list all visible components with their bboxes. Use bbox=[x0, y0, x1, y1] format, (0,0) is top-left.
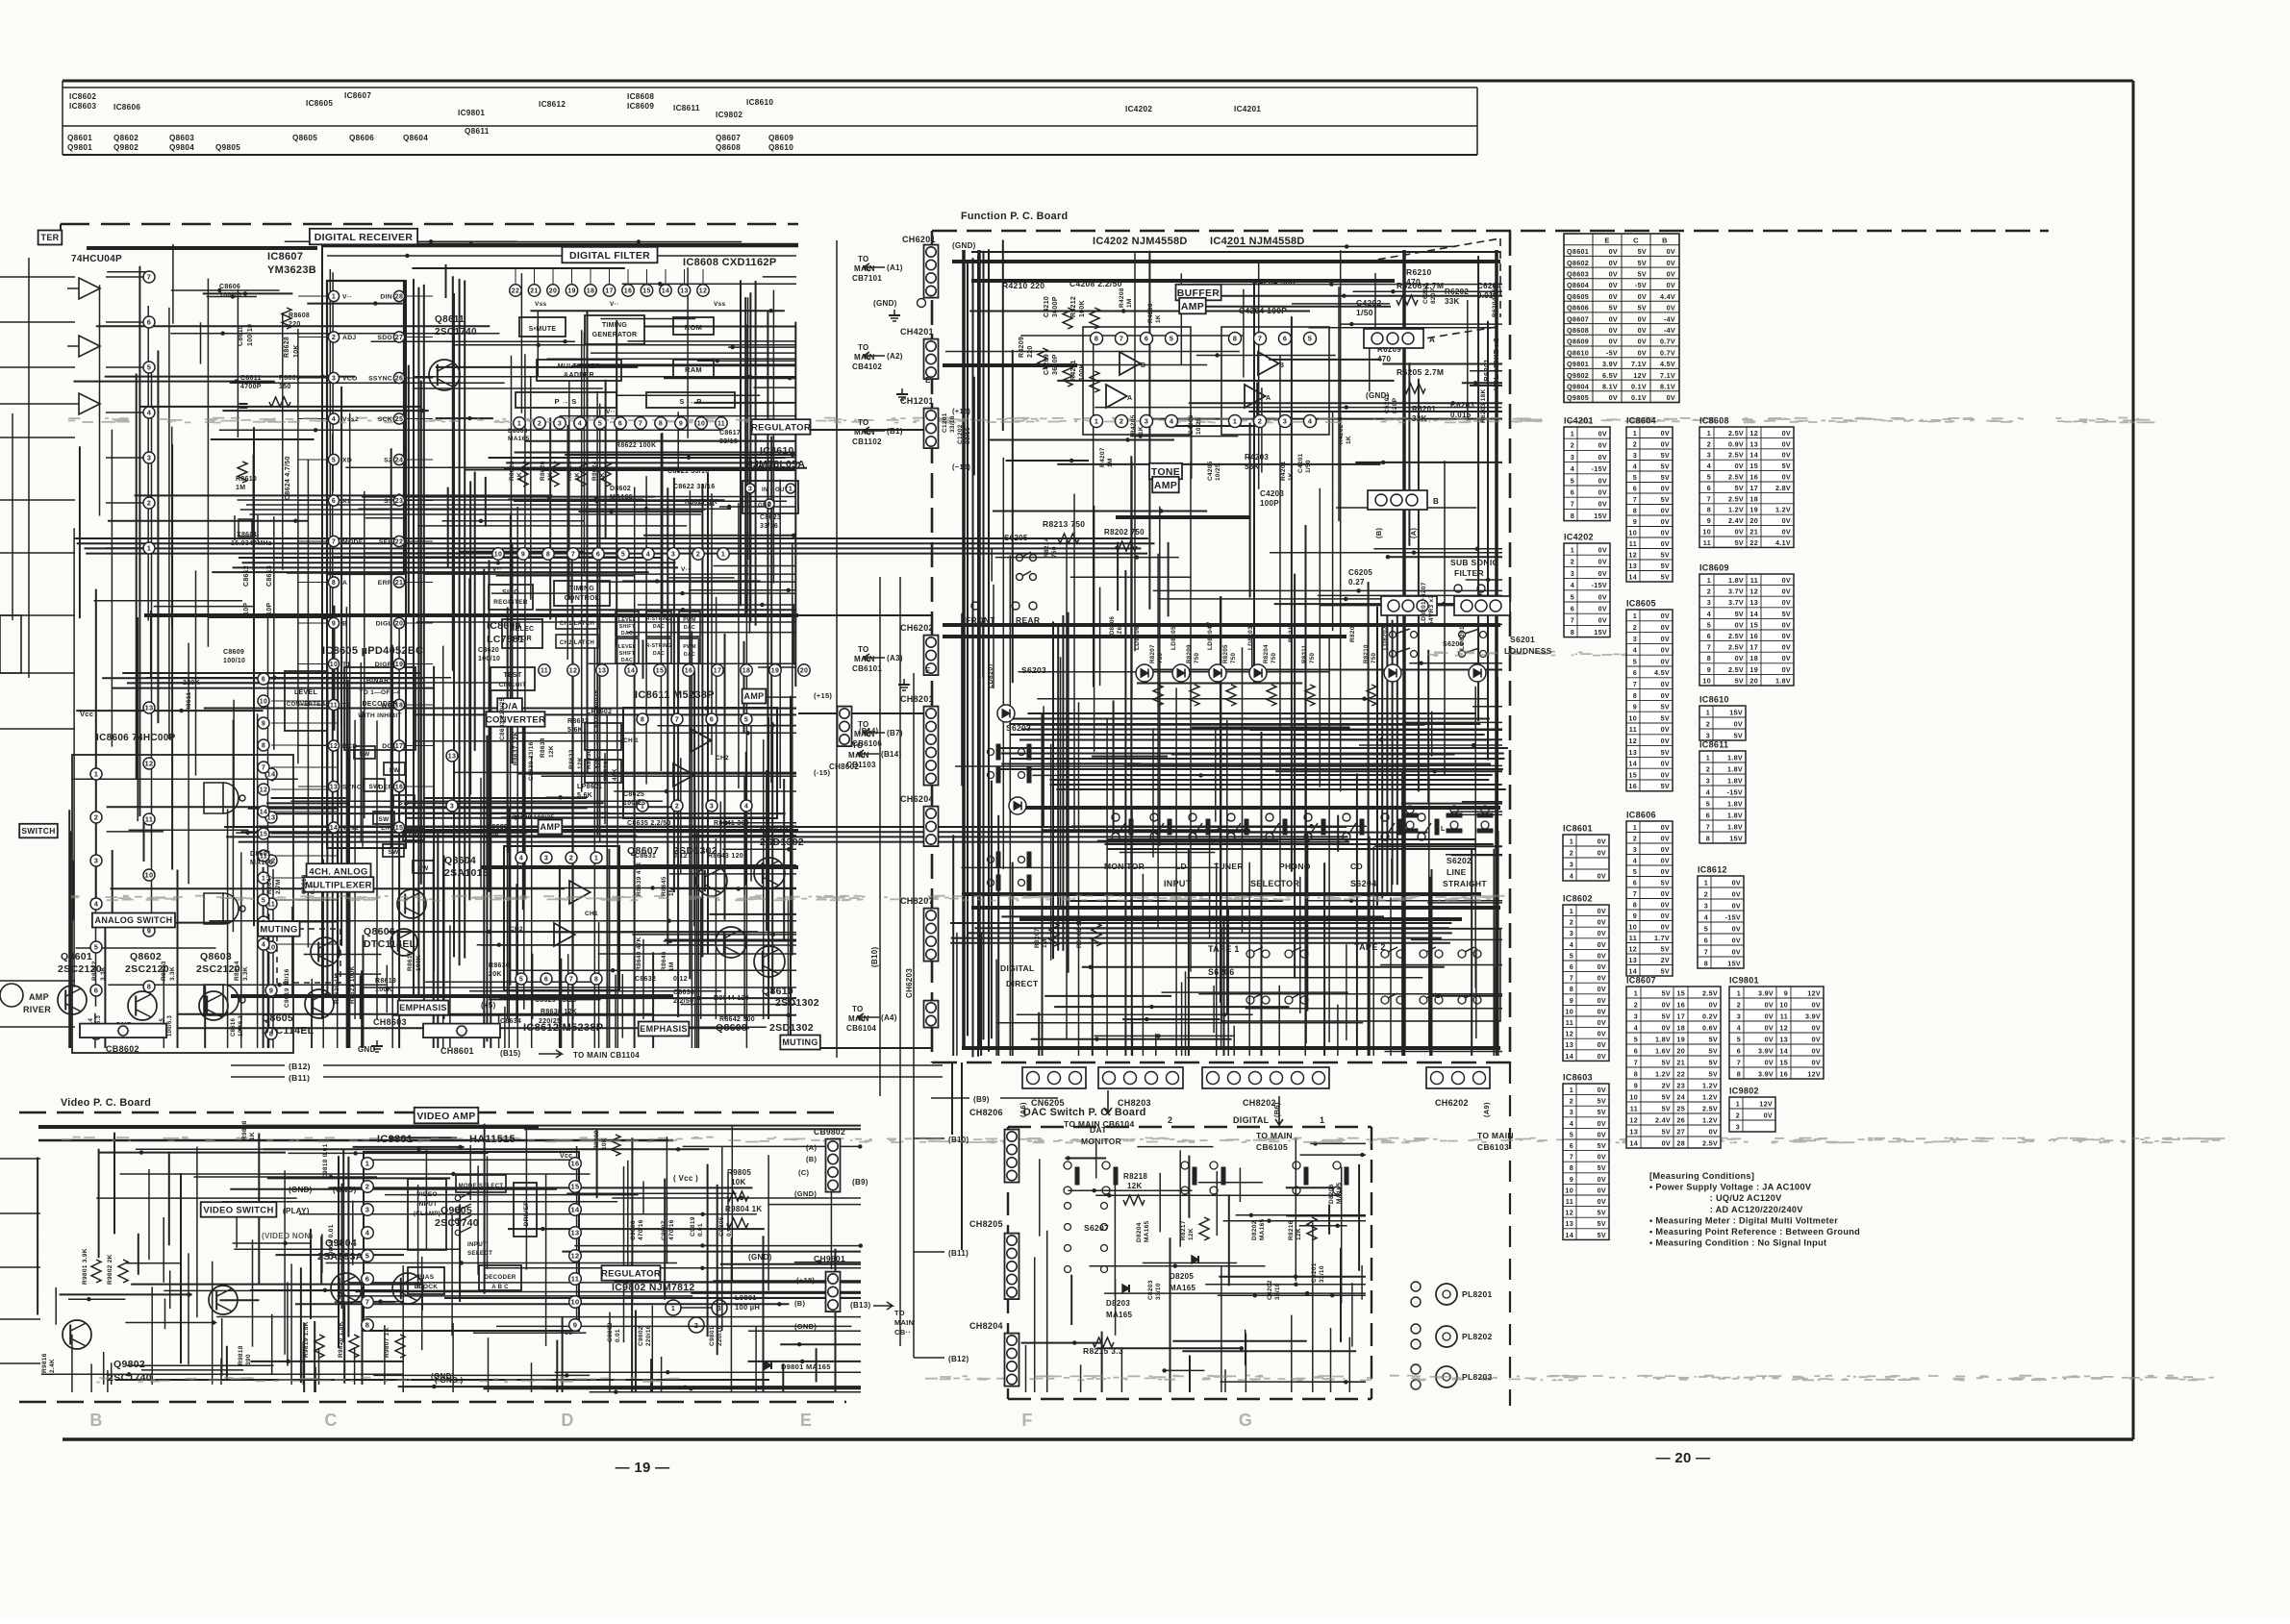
svg-text:CB9802: CB9802 bbox=[814, 1127, 845, 1137]
svg-text:R8627 1K: R8627 1K bbox=[685, 499, 717, 506]
svg-text:0V: 0V bbox=[1661, 901, 1670, 910]
svg-text:Q8605: Q8605 bbox=[262, 1012, 293, 1024]
svg-text:0V: 0V bbox=[1782, 587, 1791, 596]
svg-text:0V: 0V bbox=[1661, 725, 1670, 734]
svg-text:9: 9 bbox=[1707, 665, 1711, 674]
svg-text:6.5V: 6.5V bbox=[1602, 371, 1618, 380]
svg-text:GND: GND bbox=[758, 503, 772, 509]
svg-text:0V: 0V bbox=[1598, 940, 1606, 949]
svg-text:A: A bbox=[342, 580, 347, 587]
svg-text:7: 7 bbox=[639, 421, 642, 428]
svg-text:10: 10 bbox=[1702, 528, 1711, 537]
svg-text:(GND): (GND) bbox=[873, 299, 897, 308]
svg-text:13: 13 bbox=[598, 668, 606, 675]
svg-text:(B11): (B11) bbox=[948, 1249, 969, 1258]
svg-text:A: A bbox=[1266, 395, 1271, 402]
svg-text:220: 220 bbox=[289, 321, 301, 328]
svg-text:7: 7 bbox=[1737, 1058, 1741, 1066]
svg-text:C9803: C9803 bbox=[607, 1322, 614, 1342]
svg-text:SYNC: SYNC bbox=[342, 785, 362, 791]
svg-text:14: 14 bbox=[260, 810, 267, 816]
svg-text:12: 12 bbox=[699, 288, 707, 295]
svg-text:13: 13 bbox=[330, 785, 338, 791]
svg-text:IC8608 CXD1162P: IC8608 CXD1162P bbox=[683, 257, 776, 268]
svg-text:3: 3 bbox=[1706, 776, 1710, 785]
svg-text:D8206: D8206 bbox=[1328, 1184, 1335, 1204]
svg-text:6: 6 bbox=[1570, 1141, 1573, 1150]
svg-text:C8609: C8609 bbox=[223, 649, 244, 656]
svg-text:5V: 5V bbox=[1598, 1231, 1606, 1239]
svg-text:C8635 2.2/50: C8635 2.2/50 bbox=[627, 820, 671, 827]
svg-text:750: 750 bbox=[1157, 653, 1164, 663]
svg-text:390: 390 bbox=[245, 1354, 252, 1365]
svg-text:4.5V: 4.5V bbox=[1660, 360, 1675, 368]
svg-text:Q9804: Q9804 bbox=[169, 143, 194, 152]
svg-text:12V: 12V bbox=[1807, 1069, 1821, 1078]
svg-text:R9801 3.9K: R9801 3.9K bbox=[82, 1248, 88, 1285]
svg-text:8: 8 bbox=[1633, 691, 1637, 700]
svg-text:1.7V: 1.7V bbox=[1654, 934, 1670, 942]
svg-text:3: 3 bbox=[1633, 635, 1637, 643]
svg-text:1M: 1M bbox=[1042, 938, 1048, 948]
svg-text:220K: 220K bbox=[183, 680, 200, 687]
svg-text:0V: 0V bbox=[1609, 292, 1618, 301]
svg-text:0V: 0V bbox=[1667, 259, 1675, 267]
svg-text:ERR: ERR bbox=[378, 580, 392, 587]
svg-text:LD8203: LD8203 bbox=[1247, 626, 1254, 650]
svg-text:2: 2 bbox=[1704, 889, 1708, 898]
svg-text:4: 4 bbox=[1633, 857, 1637, 865]
svg-text:CB6103: CB6103 bbox=[1477, 1142, 1509, 1152]
svg-text:20: 20 bbox=[1676, 1046, 1685, 1055]
svg-text:R8205: R8205 bbox=[1222, 644, 1229, 663]
svg-text:LD8204: LD8204 bbox=[1207, 626, 1214, 650]
svg-text:0V: 0V bbox=[1661, 485, 1670, 493]
svg-text:10: 10 bbox=[1779, 1000, 1788, 1009]
svg-text:CH8603: CH8603 bbox=[373, 1017, 407, 1027]
svg-text:(B): (B) bbox=[794, 1299, 806, 1308]
svg-text:IC8610: IC8610 bbox=[746, 98, 773, 107]
svg-text:0V: 0V bbox=[1764, 1111, 1773, 1119]
svg-text:CH8201: CH8201 bbox=[900, 694, 934, 704]
svg-text:22: 22 bbox=[512, 288, 519, 295]
svg-text:8: 8 bbox=[546, 552, 550, 559]
svg-text:5: 5 bbox=[1571, 476, 1574, 485]
svg-text:ROM: ROM bbox=[685, 323, 702, 332]
svg-text:3: 3 bbox=[365, 1206, 369, 1214]
svg-text:19: 19 bbox=[1749, 506, 1758, 514]
svg-text:TO: TO bbox=[858, 720, 869, 729]
svg-text:1M: 1M bbox=[1126, 298, 1133, 308]
svg-text:SCK: SCK bbox=[378, 416, 392, 423]
svg-text:R8612: R8612 bbox=[91, 961, 98, 981]
svg-text:1.8V: 1.8V bbox=[1727, 776, 1743, 785]
svg-text:5V: 5V bbox=[1609, 304, 1618, 312]
svg-text:9: 9 bbox=[332, 621, 336, 628]
svg-text:7: 7 bbox=[1633, 889, 1637, 898]
svg-text:750: 750 bbox=[1051, 546, 1058, 558]
svg-text:Q8606: Q8606 bbox=[349, 134, 374, 142]
svg-text:Q9802: Q9802 bbox=[113, 143, 138, 152]
svg-text:DAC: DAC bbox=[653, 624, 665, 630]
svg-text:16: 16 bbox=[1749, 632, 1758, 640]
svg-text:BINARY: BINARY bbox=[366, 678, 393, 685]
svg-text:9: 9 bbox=[1570, 996, 1573, 1005]
svg-text:8: 8 bbox=[1571, 512, 1574, 520]
svg-text:(B15): (B15) bbox=[500, 1049, 521, 1058]
svg-text:CB1103: CB1103 bbox=[846, 761, 876, 769]
svg-text:5V: 5V bbox=[1735, 484, 1744, 492]
svg-text:R8212: R8212 bbox=[1288, 622, 1295, 642]
svg-text:D9801 MA165: D9801 MA165 bbox=[781, 1362, 831, 1371]
svg-text:A B C: A B C bbox=[491, 1285, 509, 1290]
svg-text:0.2V: 0.2V bbox=[1702, 1012, 1718, 1020]
svg-text:TUNER: TUNER bbox=[1214, 862, 1244, 871]
svg-text:0V: 0V bbox=[1598, 453, 1607, 462]
svg-text:750: 750 bbox=[1371, 653, 1377, 663]
svg-text:MAIN: MAIN bbox=[854, 264, 875, 273]
svg-text:MA165: MA165 bbox=[1170, 1284, 1196, 1292]
svg-text:R9809: R9809 bbox=[593, 1130, 600, 1150]
svg-text:13: 13 bbox=[1779, 1035, 1788, 1043]
svg-text:S1: S1 bbox=[384, 498, 392, 505]
svg-text:(B): (B) bbox=[806, 1155, 818, 1163]
svg-text:5V: 5V bbox=[1661, 703, 1670, 712]
svg-text:C8623: C8623 bbox=[760, 514, 781, 521]
svg-text:: AD AC120/220/240V: : AD AC120/220/240V bbox=[1649, 1205, 1803, 1214]
svg-text:0V: 0V bbox=[1661, 835, 1670, 843]
svg-text:F: F bbox=[1021, 1411, 1032, 1430]
svg-text:9: 9 bbox=[573, 1321, 577, 1330]
svg-text:1: 1 bbox=[1233, 417, 1237, 426]
svg-text:0V: 0V bbox=[1812, 1000, 1821, 1009]
svg-text:D8203: D8203 bbox=[1106, 1299, 1130, 1308]
svg-text:5V: 5V bbox=[1638, 270, 1647, 279]
svg-text:R9808: R9808 bbox=[241, 1120, 248, 1140]
svg-text:4.1V: 4.1V bbox=[1775, 538, 1791, 547]
svg-text:LEVEL: LEVEL bbox=[294, 689, 317, 696]
svg-text:2: 2 bbox=[1706, 719, 1710, 728]
svg-text:VCO: VCO bbox=[342, 376, 358, 383]
svg-text:C8619 10/16: C8619 10/16 bbox=[284, 968, 290, 1008]
svg-text:6: 6 bbox=[1571, 488, 1574, 497]
svg-text:3: 3 bbox=[558, 421, 562, 428]
svg-text:14: 14 bbox=[1565, 1231, 1573, 1239]
svg-text:12: 12 bbox=[1565, 1209, 1573, 1217]
svg-text:220: 220 bbox=[1027, 345, 1034, 358]
svg-text:X1: X1 bbox=[342, 498, 351, 505]
svg-text:3600P: 3600P bbox=[1052, 296, 1059, 317]
svg-text:4: 4 bbox=[365, 1229, 370, 1237]
svg-text:100/10: 100/10 bbox=[478, 656, 500, 662]
svg-text:(GND): (GND) bbox=[952, 241, 976, 250]
svg-text:0V: 0V bbox=[1765, 1035, 1774, 1043]
svg-text:: UQ/U2 AC120V: : UQ/U2 AC120V bbox=[1649, 1193, 1782, 1203]
svg-text:R6210: R6210 bbox=[1406, 267, 1432, 277]
svg-text:5V: 5V bbox=[1638, 259, 1647, 267]
svg-text:2: 2 bbox=[1120, 417, 1123, 426]
svg-text:VIDEO AMP: VIDEO AMP bbox=[416, 1111, 475, 1122]
svg-text:8: 8 bbox=[365, 1321, 369, 1330]
svg-text:R4205: R4205 bbox=[1130, 414, 1137, 435]
svg-text:4: 4 bbox=[94, 900, 99, 909]
svg-text:0V: 0V bbox=[1667, 304, 1675, 312]
svg-text:2: 2 bbox=[1633, 835, 1637, 843]
svg-text:1: 1 bbox=[517, 421, 521, 428]
svg-text:IC8603: IC8603 bbox=[69, 102, 96, 111]
svg-text:5V: 5V bbox=[1734, 731, 1743, 739]
svg-text:CH1201: CH1201 bbox=[900, 396, 934, 406]
svg-text:9: 9 bbox=[1570, 1175, 1573, 1184]
svg-text:74HCU04P: 74HCU04P bbox=[71, 254, 122, 264]
svg-text:0V: 0V bbox=[1782, 451, 1791, 460]
svg-text:L/R: L/R bbox=[381, 825, 392, 832]
svg-text:7: 7 bbox=[1570, 974, 1573, 983]
svg-text:0V: 0V bbox=[1735, 528, 1744, 537]
svg-text:DRIVER: DRIVER bbox=[523, 1201, 530, 1226]
svg-text:12: 12 bbox=[569, 668, 577, 675]
svg-text:8: 8 bbox=[1633, 507, 1637, 515]
svg-text:12: 12 bbox=[1628, 945, 1637, 954]
svg-text:C8203: C8203 bbox=[1147, 1280, 1154, 1300]
svg-text:Q8603: Q8603 bbox=[200, 951, 232, 962]
svg-text:8: 8 bbox=[1707, 506, 1711, 514]
svg-text:R8608: R8608 bbox=[289, 312, 310, 319]
svg-text:14: 14 bbox=[1628, 760, 1637, 768]
svg-text:1.2V: 1.2V bbox=[1702, 1115, 1718, 1124]
svg-text:TO: TO bbox=[858, 645, 869, 654]
svg-text:0V: 0V bbox=[1782, 643, 1791, 652]
svg-text:MA165: MA165 bbox=[250, 860, 273, 866]
svg-text:17: 17 bbox=[1749, 643, 1758, 652]
svg-text:IC8601: IC8601 bbox=[1563, 824, 1593, 834]
svg-text:7.1V: 7.1V bbox=[1660, 371, 1675, 380]
svg-text:R8639 47K: R8639 47K bbox=[636, 862, 642, 896]
svg-text:0V: 0V bbox=[1782, 439, 1791, 448]
svg-text:0.6V: 0.6V bbox=[1702, 1023, 1718, 1032]
svg-text:3: 3 bbox=[1707, 451, 1711, 460]
svg-text:R4202: R4202 bbox=[1338, 424, 1345, 444]
svg-text:C8201: C8201 bbox=[1311, 1262, 1318, 1283]
svg-text:17: 17 bbox=[1749, 484, 1758, 492]
svg-text:Q9805: Q9805 bbox=[440, 1205, 472, 1216]
svg-text:C9802: C9802 bbox=[638, 1326, 644, 1346]
svg-text:BLOCK: BLOCK bbox=[415, 1284, 439, 1290]
svg-text:R8624: R8624 bbox=[591, 461, 598, 481]
svg-text:1: 1 bbox=[1570, 1086, 1573, 1094]
svg-text:100/10: 100/10 bbox=[247, 324, 254, 346]
svg-text:V··: V·· bbox=[681, 566, 691, 573]
svg-text:3: 3 bbox=[1706, 731, 1710, 739]
svg-text:8: 8 bbox=[1570, 1163, 1573, 1172]
svg-text:(C): (C) bbox=[798, 1168, 810, 1177]
svg-text:0V: 0V bbox=[1598, 837, 1606, 845]
svg-text:Q8610: Q8610 bbox=[762, 986, 793, 997]
svg-text:C8621 33/16: C8621 33/16 bbox=[667, 468, 709, 475]
svg-text:2: 2 bbox=[1570, 918, 1573, 927]
svg-text:0V: 0V bbox=[1667, 247, 1675, 256]
svg-text:MAIN: MAIN bbox=[854, 730, 875, 738]
svg-text:R6203 18K: R6203 18K bbox=[1480, 388, 1487, 423]
svg-text:SIPO: SIPO bbox=[502, 589, 519, 596]
svg-text:R8214: R8214 bbox=[1044, 537, 1050, 558]
svg-text:2: 2 bbox=[569, 856, 573, 862]
svg-text:11: 11 bbox=[571, 1275, 580, 1284]
svg-text:7: 7 bbox=[1704, 947, 1708, 956]
svg-text:0V: 0V bbox=[1661, 867, 1670, 876]
svg-text:19: 19 bbox=[1749, 665, 1758, 674]
svg-text:R9818: R9818 bbox=[238, 1345, 244, 1365]
svg-text:CH6202: CH6202 bbox=[1435, 1098, 1469, 1108]
svg-text:R8211: R8211 bbox=[1301, 644, 1308, 663]
svg-text:Q8608: Q8608 bbox=[1567, 326, 1589, 335]
svg-text:A: A bbox=[1429, 336, 1435, 344]
svg-text:LD8201: LD8201 bbox=[1459, 626, 1466, 650]
svg-text:17: 17 bbox=[395, 743, 403, 750]
svg-text:13: 13 bbox=[1565, 1219, 1573, 1228]
svg-text:IC8611: IC8611 bbox=[1699, 740, 1728, 750]
svg-text:15: 15 bbox=[395, 825, 403, 832]
svg-text:MAIN: MAIN bbox=[848, 751, 869, 760]
svg-text:E: E bbox=[925, 376, 931, 385]
svg-text:5V: 5V bbox=[1662, 1058, 1671, 1066]
svg-text:100K: 100K bbox=[415, 955, 422, 971]
svg-text:R8625: R8625 bbox=[566, 461, 573, 481]
svg-text:[Measuring Conditions]: [Measuring Conditions] bbox=[1649, 1171, 1754, 1181]
svg-text:R4209: R4209 bbox=[1019, 337, 1025, 358]
svg-text:11: 11 bbox=[541, 668, 548, 675]
svg-text:C8610: C8610 bbox=[238, 325, 244, 346]
svg-text:6: 6 bbox=[262, 677, 265, 684]
svg-text:(B14): (B14) bbox=[881, 750, 902, 759]
svg-text:MONITOR: MONITOR bbox=[1081, 1137, 1121, 1146]
svg-text:S6203: S6203 bbox=[1021, 665, 1046, 675]
svg-text:V··: V·· bbox=[606, 409, 616, 415]
svg-text:0V: 0V bbox=[1709, 1000, 1718, 1009]
svg-text:12: 12 bbox=[145, 760, 154, 768]
svg-text:10/25: 10/25 bbox=[1195, 417, 1202, 435]
svg-text:(B6): (B6) bbox=[1272, 1102, 1281, 1117]
svg-text:(B11): (B11) bbox=[289, 1073, 310, 1083]
svg-text:11: 11 bbox=[1629, 725, 1637, 734]
svg-text:CH6203: CH6203 bbox=[905, 968, 914, 998]
svg-text:13: 13 bbox=[1749, 598, 1758, 607]
svg-text:LP8601: LP8601 bbox=[577, 784, 602, 790]
svg-text:8: 8 bbox=[1233, 335, 1237, 343]
svg-text:CB8602: CB8602 bbox=[106, 1044, 139, 1054]
svg-text:22: 22 bbox=[1676, 1069, 1685, 1078]
svg-text:21: 21 bbox=[1676, 1058, 1685, 1066]
svg-text:5: 5 bbox=[1706, 799, 1710, 808]
svg-text:5V: 5V bbox=[1661, 967, 1670, 976]
svg-text:R8609: R8609 bbox=[279, 375, 300, 382]
svg-text:1: 1 bbox=[1633, 823, 1637, 832]
svg-text:CD: CD bbox=[1350, 862, 1363, 871]
svg-text:0V: 0V bbox=[1609, 326, 1618, 335]
svg-text:15: 15 bbox=[656, 668, 664, 675]
svg-text:5V: 5V bbox=[1709, 1058, 1718, 1066]
svg-text:0V: 0V bbox=[1598, 996, 1606, 1005]
svg-text:9: 9 bbox=[269, 987, 273, 995]
svg-text:0V: 0V bbox=[1661, 539, 1670, 548]
svg-text:GND: GND bbox=[358, 1045, 376, 1054]
svg-text:6: 6 bbox=[1633, 668, 1637, 677]
svg-text:-4V: -4V bbox=[1664, 314, 1675, 323]
svg-text:1M: 1M bbox=[668, 962, 675, 971]
svg-text:100/6.3: 100/6.3 bbox=[239, 1015, 244, 1037]
svg-text:VR6201: VR6201 bbox=[1482, 359, 1491, 387]
svg-text:S•MUTE: S•MUTE bbox=[529, 326, 557, 333]
svg-text:10: 10 bbox=[1628, 923, 1637, 932]
svg-text:470/16: 470/16 bbox=[638, 1219, 644, 1240]
svg-text:MAIN: MAIN bbox=[854, 655, 875, 663]
svg-text:2: 2 bbox=[1707, 439, 1711, 448]
svg-text:28: 28 bbox=[395, 294, 403, 301]
svg-text:14: 14 bbox=[627, 668, 635, 675]
svg-text:0V: 0V bbox=[1812, 1046, 1821, 1055]
svg-text:0V: 0V bbox=[1661, 691, 1670, 700]
svg-text:0V: 0V bbox=[1661, 635, 1670, 643]
svg-text:C8632: C8632 bbox=[635, 976, 656, 983]
svg-text:C1202: C1202 bbox=[957, 424, 964, 444]
svg-text:1M: 1M bbox=[236, 485, 245, 491]
svg-text:10K: 10K bbox=[293, 344, 300, 358]
svg-text:0V: 0V bbox=[1732, 936, 1741, 944]
svg-text:CB6104: CB6104 bbox=[846, 1024, 876, 1033]
svg-text:Q9804: Q9804 bbox=[1567, 383, 1589, 391]
svg-text:1.2V: 1.2V bbox=[1655, 1069, 1671, 1078]
svg-text:4: 4 bbox=[1706, 787, 1710, 796]
svg-text:CH8206: CH8206 bbox=[969, 1108, 1003, 1117]
svg-text:0V: 0V bbox=[1662, 1023, 1671, 1032]
svg-text:MODE: MODE bbox=[342, 539, 364, 546]
svg-text:Q8608: Q8608 bbox=[716, 143, 741, 152]
svg-text:0V: 0V bbox=[1661, 770, 1670, 779]
svg-text:CH2: CH2 bbox=[510, 926, 523, 933]
svg-text:6: 6 bbox=[1145, 335, 1148, 343]
svg-text:100/10: 100/10 bbox=[219, 292, 241, 299]
svg-text:54VR3 x7: 54VR3 x7 bbox=[1428, 595, 1435, 625]
svg-text:5V: 5V bbox=[1782, 462, 1791, 470]
svg-text:4.5V: 4.5V bbox=[1654, 668, 1670, 677]
svg-text:0V: 0V bbox=[1598, 1086, 1606, 1094]
svg-text:C8620: C8620 bbox=[478, 647, 499, 654]
svg-text:20: 20 bbox=[395, 621, 403, 628]
svg-text:Vcc: Vcc bbox=[80, 710, 93, 718]
svg-text:4: 4 bbox=[1707, 462, 1711, 470]
svg-text:4: 4 bbox=[519, 856, 523, 862]
svg-text:PL8201: PL8201 bbox=[1462, 1289, 1493, 1299]
svg-text:(B7): (B7) bbox=[887, 729, 903, 737]
svg-text:0V: 0V bbox=[1609, 281, 1618, 289]
svg-text:750: 750 bbox=[1194, 653, 1200, 663]
svg-text:DTC114EL: DTC114EL bbox=[364, 938, 416, 950]
svg-text:C8613: C8613 bbox=[266, 565, 273, 587]
svg-text:(PLAY): (PLAY) bbox=[283, 1207, 310, 1215]
svg-text:PWM: PWM bbox=[683, 644, 696, 650]
svg-text:6: 6 bbox=[147, 318, 151, 327]
svg-text:IC8607: IC8607 bbox=[1626, 976, 1656, 986]
svg-text:0V: 0V bbox=[1782, 632, 1791, 640]
svg-text:DIRECT: DIRECT bbox=[1006, 979, 1039, 988]
svg-text:1: 1 bbox=[147, 544, 151, 553]
svg-text:8: 8 bbox=[1571, 628, 1574, 637]
svg-text:1.8V: 1.8V bbox=[1727, 822, 1743, 831]
svg-text:ADJ: ADJ bbox=[342, 335, 357, 341]
svg-text:(A3): (A3) bbox=[887, 654, 903, 662]
svg-text:4.4V: 4.4V bbox=[1660, 292, 1675, 301]
svg-text:3: 3 bbox=[1570, 1108, 1573, 1116]
